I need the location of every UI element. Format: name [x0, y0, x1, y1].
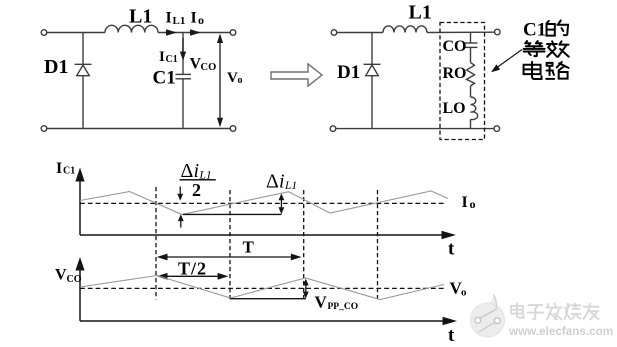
- svg-text:V: V: [227, 70, 238, 86]
- svg-text:L1: L1: [173, 15, 186, 27]
- svg-text:C1: C1: [166, 54, 178, 65]
- svg-text:L1: L1: [129, 6, 152, 28]
- svg-text:T/2: T/2: [178, 259, 207, 279]
- svg-text:L1: L1: [409, 2, 432, 24]
- svg-text:t: t: [448, 325, 455, 346]
- svg-text:D1: D1: [337, 62, 360, 83]
- svg-text:V: V: [55, 267, 67, 284]
- svg-text:o: o: [238, 75, 243, 86]
- svg-text:I: I: [462, 194, 468, 211]
- svg-text:T: T: [243, 238, 255, 257]
- svg-text:i: i: [194, 160, 200, 182]
- svg-text:Δ: Δ: [266, 171, 279, 193]
- svg-text:o: o: [461, 287, 467, 299]
- svg-text:RO: RO: [443, 65, 467, 82]
- svg-text:L1: L1: [284, 180, 297, 192]
- svg-text:o: o: [470, 197, 476, 211]
- svg-text:I: I: [56, 160, 62, 177]
- svg-text:I: I: [166, 10, 172, 27]
- svg-text:V: V: [315, 293, 328, 312]
- svg-text:CO: CO: [67, 274, 82, 285]
- svg-text:I: I: [159, 49, 165, 65]
- svg-text:PP_CO: PP_CO: [328, 302, 359, 312]
- svg-text:o: o: [198, 13, 204, 27]
- svg-text:CO: CO: [443, 38, 467, 55]
- svg-text:CO: CO: [201, 62, 217, 73]
- svg-text:C1: C1: [523, 19, 546, 40]
- svg-text:I: I: [191, 10, 197, 27]
- svg-text:t: t: [448, 239, 455, 260]
- svg-text:Δ: Δ: [181, 160, 194, 182]
- svg-text:C1: C1: [63, 166, 75, 177]
- svg-text:www.elecfans.com: www.elecfans.com: [508, 325, 613, 338]
- svg-text:C1: C1: [153, 68, 176, 89]
- svg-text:LO: LO: [443, 100, 466, 117]
- svg-text:i: i: [279, 171, 285, 193]
- svg-text:D1: D1: [44, 56, 68, 78]
- svg-text:2: 2: [192, 180, 201, 200]
